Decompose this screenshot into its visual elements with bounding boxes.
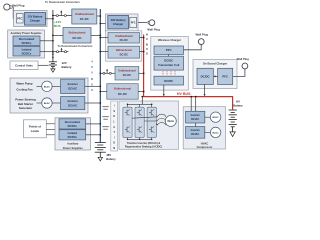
svg-text:Power Supplies: Power Supplies bbox=[63, 146, 84, 150]
svg-text:DC/AC: DC/AC bbox=[68, 104, 77, 108]
svg-text:Battery: Battery bbox=[106, 157, 116, 161]
svg-text:Wall Plug: Wall Plug bbox=[237, 57, 249, 61]
svg-text:Compressor: Compressor bbox=[197, 145, 213, 149]
svg-text:4: 4 bbox=[91, 60, 93, 64]
svg-text:BLDC: BLDC bbox=[213, 132, 219, 134]
svg-text:Loads: Loads bbox=[31, 129, 40, 133]
svg-text:Auxiliary: Auxiliary bbox=[67, 142, 79, 146]
svg-text:DC/AC: DC/AC bbox=[191, 118, 199, 121]
svg-text:DC/DCs: DC/DCs bbox=[22, 41, 32, 45]
svg-text:Bidirectional: Bidirectional bbox=[114, 87, 131, 91]
svg-text:Unidirectional: Unidirectional bbox=[115, 34, 133, 38]
svg-text:Isolated: Isolated bbox=[22, 48, 32, 52]
svg-text:O: O bbox=[113, 114, 115, 118]
svg-text:DC-DC: DC-DC bbox=[123, 73, 131, 77]
svg-text:BLDC: BLDC bbox=[44, 86, 50, 88]
svg-text:On Board Charger: On Board Charger bbox=[203, 61, 228, 65]
svg-text:8: 8 bbox=[91, 65, 93, 69]
svg-text:DC/DCs: DC/DCs bbox=[68, 125, 78, 128]
svg-text:Traction Inverter (DC/AC) &: Traction Inverter (DC/AC) & bbox=[127, 141, 161, 145]
svg-text:PFC: PFC bbox=[166, 48, 172, 52]
svg-text:DC/AC: DC/AC bbox=[191, 133, 199, 136]
svg-text:Inverter: Inverter bbox=[68, 82, 79, 86]
svg-text:DC-DC: DC-DC bbox=[118, 92, 127, 96]
svg-text:DC/DCs: DC/DCs bbox=[68, 136, 78, 139]
svg-text:B: B bbox=[146, 42, 148, 46]
svg-text:Battery: Battery bbox=[62, 65, 72, 69]
svg-text:Bidirectional: Bidirectional bbox=[69, 31, 86, 35]
svg-text:Auxiliary Power Supplies: Auxiliary Power Supplies bbox=[11, 31, 43, 35]
svg-text:S: S bbox=[146, 51, 148, 55]
svg-text:Motor: Motor bbox=[167, 120, 174, 123]
svg-text:Inverter: Inverter bbox=[191, 114, 200, 117]
svg-text:DC-DC: DC-DC bbox=[80, 17, 89, 21]
svg-text:PFC: PFC bbox=[222, 74, 228, 78]
svg-text:A: A bbox=[113, 125, 115, 129]
svg-text:PFC: PFC bbox=[131, 23, 136, 25]
svg-text:N: N bbox=[113, 146, 115, 150]
svg-text:Bidirectional: Bidirectional bbox=[116, 48, 132, 52]
svg-text:Wall Plug: Wall Plug bbox=[196, 33, 209, 37]
svg-text:HV BUS: HV BUS bbox=[177, 92, 191, 96]
svg-text:Control Units: Control Units bbox=[15, 64, 33, 68]
svg-text:Non-Isolated: Non-Isolated bbox=[65, 121, 81, 124]
svg-text:S: S bbox=[113, 109, 115, 113]
svg-text:Cooling Fan: Cooling Fan bbox=[16, 87, 32, 91]
svg-text:To Downstream Converters: To Downstream Converters bbox=[45, 0, 80, 4]
svg-text:DC-DC: DC-DC bbox=[120, 38, 128, 42]
svg-text:DC/DCs: DC/DCs bbox=[22, 51, 32, 55]
svg-text:DC/DC: DC/DC bbox=[164, 79, 173, 83]
svg-text:Charger: Charger bbox=[113, 22, 123, 26]
svg-text:Wall Plug: Wall Plug bbox=[147, 28, 160, 32]
svg-text:Water Pump: Water Pump bbox=[16, 82, 33, 86]
svg-text:Generator: Generator bbox=[19, 106, 33, 110]
svg-text:DC-DC: DC-DC bbox=[72, 36, 81, 40]
svg-text:DC/AC: DC/AC bbox=[68, 86, 77, 90]
svg-text:S: S bbox=[91, 88, 93, 92]
svg-text:Isolated: Isolated bbox=[68, 132, 78, 135]
svg-text:PFC: PFC bbox=[17, 17, 22, 21]
svg-text:Charger: Charger bbox=[30, 18, 40, 22]
svg-text:Battery: Battery bbox=[233, 103, 243, 107]
svg-text:Inverter: Inverter bbox=[191, 129, 200, 132]
svg-text:48V Battery: 48V Battery bbox=[111, 18, 126, 22]
svg-text:Wireless Charger: Wireless Charger bbox=[158, 38, 182, 42]
svg-text:Unidirectional: Unidirectional bbox=[118, 68, 136, 72]
svg-text:U: U bbox=[146, 47, 148, 51]
svg-text:48V: 48V bbox=[106, 153, 111, 157]
svg-text:Wall Plug: Wall Plug bbox=[12, 4, 25, 8]
svg-text:Non Isolated: Non Isolated bbox=[19, 37, 35, 41]
svg-text:V: V bbox=[146, 37, 148, 41]
svg-text:Transmitter Coil: Transmitter Coil bbox=[158, 63, 180, 67]
svg-text:BLDC: BLDC bbox=[44, 103, 50, 105]
svg-text:HV: HV bbox=[236, 99, 240, 103]
svg-text:BLDC: BLDC bbox=[213, 117, 219, 119]
svg-text:12V Battery: 12V Battery bbox=[28, 14, 43, 18]
svg-text:DC/DC: DC/DC bbox=[201, 74, 210, 78]
svg-text:DC-DC: DC-DC bbox=[120, 52, 128, 56]
svg-text:Regenerative Braking (AC/DC): Regenerative Braking (AC/DC) bbox=[125, 144, 162, 148]
svg-text:H: H bbox=[146, 32, 148, 36]
svg-text:To Downstream Converters: To Downstream Converters bbox=[58, 44, 93, 48]
svg-text:Unidirectional: Unidirectional bbox=[75, 12, 94, 16]
svg-text:O: O bbox=[113, 141, 115, 145]
svg-text:BUS: BUS bbox=[54, 24, 61, 28]
